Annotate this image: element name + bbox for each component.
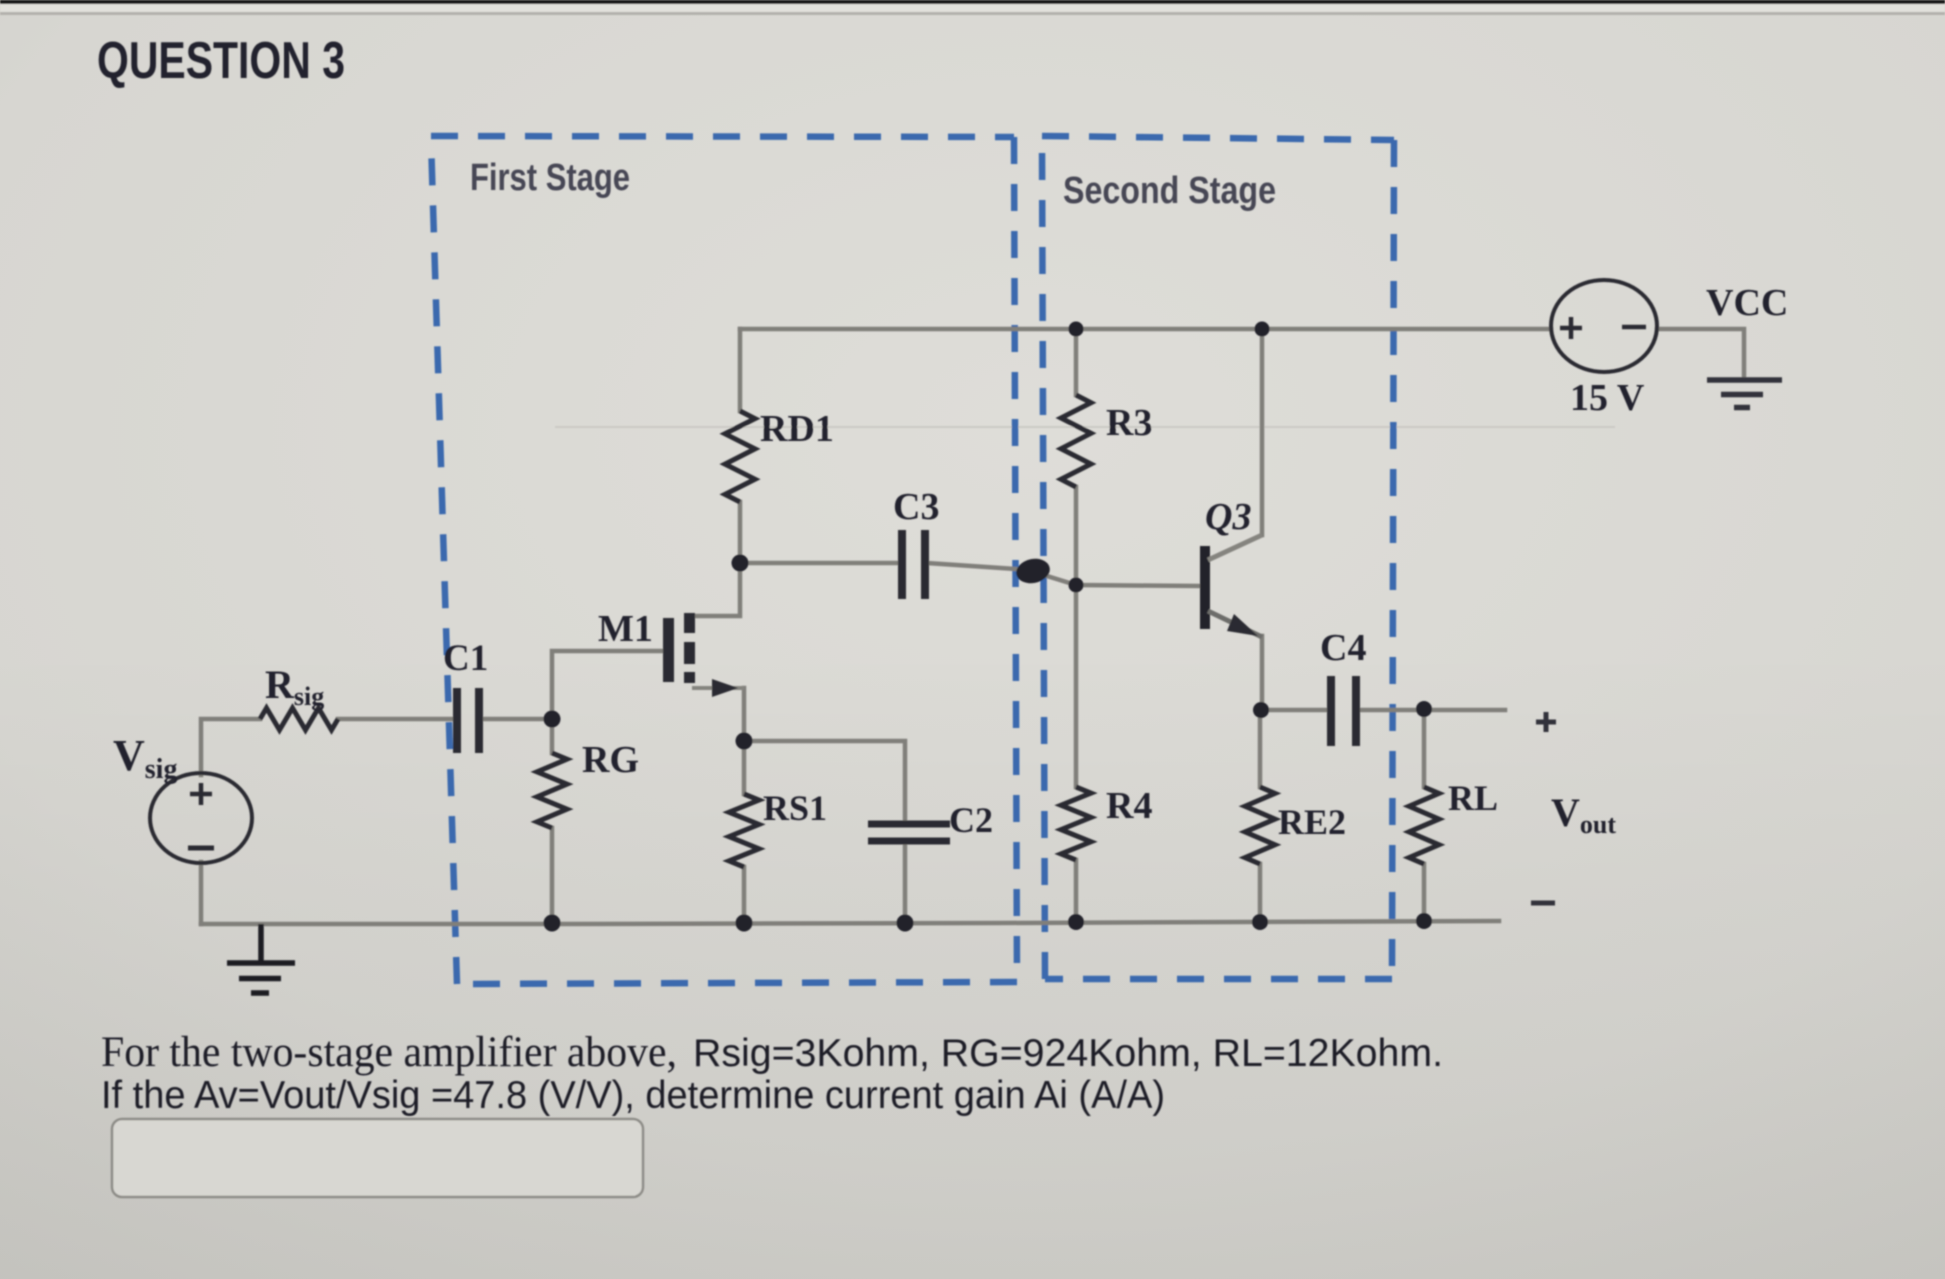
node dot Q3 base / R3-R4: [1069, 578, 1084, 593]
wire M1 drain to node D1: [691, 563, 740, 616]
rail dot C2: [897, 915, 914, 932]
svg-text:RD1: RD1: [760, 408, 834, 450]
wire R3 top lead from rail: [1074, 329, 1079, 395]
node dot rail-R3: [1069, 322, 1084, 337]
resistor R4: [1061, 787, 1091, 860]
transistor Q3: [1200, 535, 1262, 637]
MOSFET M1: [663, 613, 744, 697]
wire C3 right plate to node B (blob): [927, 563, 1031, 570]
svg-text:M1: M1: [598, 608, 653, 650]
ground at VCC: [1707, 380, 1782, 408]
wire RE2 top lead: [1258, 710, 1263, 787]
svg-text:C4: C4: [1320, 627, 1366, 669]
node dot M1 source-RS1-C2: [736, 733, 753, 750]
resistor RD1: [725, 411, 755, 502]
svg-text:R3: R3: [1106, 402, 1152, 444]
rail dot RS1: [736, 915, 753, 932]
node dot RD1-C3-M1 drain: [732, 555, 749, 572]
svg-text:Q3: Q3: [1205, 496, 1251, 538]
voltage source Vsig: [150, 773, 252, 863]
wire M1 source down to node S1: [742, 688, 747, 741]
voltage source VCC 15V: [1551, 280, 1657, 372]
resistor RG: [537, 753, 567, 828]
node B blob at stage boundary: [1014, 556, 1052, 587]
top browser chrome dark bar: [0, 0, 1945, 4]
svg-text:RL: RL: [1448, 778, 1498, 818]
svg-text:C1: C1: [443, 638, 488, 679]
capacitor C4: [1331, 676, 1356, 746]
wire node E2 to C4 left plate: [1262, 708, 1327, 713]
node dot C1-RG-gate: [544, 711, 561, 728]
capacitor C2: [868, 824, 950, 841]
wire RG bottom lead: [550, 828, 555, 923]
wire C1 right plate to node G: [481, 717, 552, 722]
svg-text:C2: C2: [949, 800, 993, 840]
faint screen artifact line: [555, 426, 1615, 428]
wire C2 bottom to rail: [903, 843, 908, 923]
wire node D1 to C3 left plate: [740, 561, 899, 566]
resistor RL: [1409, 787, 1439, 864]
wire R3 bottom to base node: [1074, 487, 1079, 585]
svg-text:15 V: 15 V: [1570, 377, 1645, 419]
wire RS1 bottom lead: [742, 867, 747, 923]
wire RE2 bottom lead: [1258, 864, 1263, 923]
svg-text:If the Av=Vout/Vsig =47.8 (V/V: If the Av=Vout/Vsig =47.8 (V/V), determi…: [101, 1074, 1165, 1117]
node dot rail-Q3 collector: [1255, 322, 1270, 337]
rail dot RL: [1416, 913, 1432, 929]
node dot C4-RL-output: [1416, 701, 1432, 717]
wire Vsig bottom lead to rail: [199, 862, 204, 924]
wire R4 top lead: [1074, 585, 1079, 787]
node dot emitter-RE2-C4: [1253, 702, 1269, 718]
svg-text:RE2: RE2: [1278, 802, 1346, 842]
wire node B to Q3 base: [1031, 571, 1200, 586]
wire RG top lead: [550, 719, 555, 753]
second stage dashed box: [1042, 136, 1394, 979]
wire R4 bottom lead: [1074, 860, 1079, 923]
svg-text:Second Stage: Second Stage: [1063, 170, 1276, 212]
wire RL top lead: [1422, 710, 1427, 787]
wire RD1 top lead: [738, 329, 743, 411]
wire Vsig top lead to Rsig: [201, 719, 260, 775]
wire node S1 to C2 top: [744, 741, 905, 822]
wire bottom ground rail: [201, 921, 1499, 924]
svg-text:First Stage: First Stage: [470, 157, 630, 199]
resistor RE2: [1245, 787, 1275, 864]
wire RD1 bottom lead to node D1: [738, 502, 743, 563]
svg-text:RS1: RS1: [763, 788, 827, 828]
svg-text:C3: C3: [893, 486, 939, 528]
wire Q3 emitter down to node E2: [1260, 636, 1265, 710]
svg-text:RG: RG: [582, 739, 639, 781]
wire C4 right plate to node OUT: [1359, 708, 1424, 713]
capacitor C3: [902, 530, 925, 599]
rail dot R4: [1068, 914, 1084, 930]
rail dot RE2: [1252, 914, 1268, 930]
svg-text:For the two-stage amplifier ab: For the two-stage amplifier above,: [101, 1029, 677, 1076]
rail dot RG: [544, 915, 561, 932]
resistor R3: [1061, 395, 1091, 487]
wire Q3 collector to rail: [1260, 329, 1265, 535]
wire node OUT to plus terminal: [1424, 708, 1505, 713]
wire VCC rail top: [740, 327, 1551, 332]
svg-text:Rsig=3Kohm, RG=924Kohm, RL=12K: Rsig=3Kohm, RG=924Kohm, RL=12Kohm.: [693, 1032, 1443, 1075]
wire RS1 top lead: [742, 741, 747, 794]
answer input box: [112, 1119, 643, 1197]
svg-text:R4: R4: [1106, 785, 1152, 827]
wire Rsig to C1 left plate: [338, 717, 453, 722]
capacitor C1: [457, 688, 479, 753]
first stage dashed box: [431, 136, 1017, 984]
ground at Vsig rail: [227, 924, 295, 993]
output plus terminal: [1536, 712, 1556, 732]
resistor Rsig: [260, 708, 338, 730]
svg-text:VCC: VCC: [1706, 282, 1788, 324]
wire node G riser to M1 gate: [552, 651, 661, 719]
resistor RS1: [729, 794, 759, 867]
svg-text:QUESTION 3: QUESTION 3: [97, 32, 345, 90]
wire RL bottom lead: [1422, 864, 1427, 923]
wire VCC source to ground stub: [1657, 329, 1744, 377]
output minus terminal: [1531, 901, 1555, 906]
